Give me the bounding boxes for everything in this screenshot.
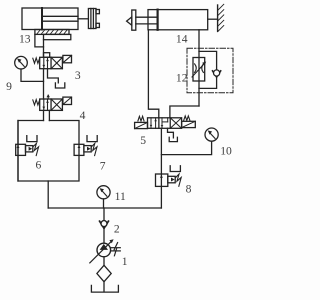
svg-text:14: 14 bbox=[176, 33, 188, 46]
svg-text:6: 6 bbox=[36, 159, 42, 172]
cylinder 14 rod bbox=[136, 16, 158, 18]
right position cross bbox=[170, 118, 181, 129]
tank symbol below valve 5 bbox=[169, 137, 177, 141]
wire cylinder 14 cap-end to valve 5 bbox=[148, 30, 158, 118]
valve 6 (pressure valve) bbox=[16, 121, 39, 182]
pressure gauge 11 bbox=[97, 186, 110, 208]
svg-text:11: 11 bbox=[115, 190, 126, 203]
cylinder 13 piston bbox=[41, 8, 43, 30]
main pressure line bbox=[48, 207, 161, 209]
wire valve 5 to valve 8 and main line bbox=[160, 128, 162, 208]
port block above valve 3 bbox=[44, 53, 50, 58]
tool plate of cylinder 14 bbox=[132, 10, 136, 30]
centre position bbox=[161, 118, 163, 129]
valve 7 (pressure valve) bbox=[74, 136, 97, 156]
bypass check valve of 12 bbox=[199, 51, 221, 88]
left position arrows bbox=[150, 118, 152, 129]
valve 8 (pressure valve) bbox=[156, 166, 182, 187]
drain of valve 3 to tank bbox=[48, 69, 59, 83]
wire cylinder 14 rod-end down through throttle bbox=[198, 30, 200, 106]
check valve 2 bbox=[100, 221, 109, 244]
left spring of valve 5 bbox=[138, 116, 144, 121]
tool tip wedge bbox=[127, 17, 132, 25]
svg-text:8: 8 bbox=[186, 182, 192, 195]
cylinder 13 rod bbox=[42, 15, 78, 17]
drain of valve 5 bbox=[168, 128, 174, 138]
throttle valve 12 bbox=[192, 58, 206, 82]
filter below pump bbox=[97, 257, 111, 292]
solenoid of valve 4 bbox=[63, 97, 72, 104]
cylinder 13 body bbox=[22, 8, 78, 30]
svg-text:13: 13 bbox=[19, 33, 31, 46]
tank symbol main bbox=[91, 285, 118, 292]
pressure gauge 10 bbox=[161, 128, 218, 155]
manifold loop for valves 6 and 7 bbox=[18, 121, 79, 209]
tank symbol below valve 3 bbox=[55, 83, 64, 88]
wire valve 3 to valve 4 bbox=[43, 69, 45, 99]
chuck fixture on rod of cylinder 13 bbox=[88, 9, 99, 29]
svg-text:1: 1 bbox=[122, 255, 128, 268]
wire plate to valve 3 bbox=[43, 40, 45, 58]
cylinder 14 piston bbox=[157, 10, 159, 30]
wires valve 4 to manifold loop bbox=[43, 110, 45, 120]
hatched slide table under cylinder 13 bbox=[35, 30, 69, 35]
svg-text:2: 2 bbox=[114, 222, 120, 235]
valve 5 (4/3 solenoid valve) bbox=[135, 116, 196, 129]
svg-text:4: 4 bbox=[80, 109, 86, 122]
right solenoid of valve 5 bbox=[182, 121, 196, 127]
fixed wall with hatching bbox=[218, 4, 224, 31]
one-way throttle valve 12 enclosure bbox=[187, 48, 233, 93]
svg-text:3: 3 bbox=[75, 69, 81, 82]
svg-text:12: 12 bbox=[176, 72, 188, 85]
spring of valve 3 bbox=[33, 58, 40, 63]
valve 3 (4/2 solenoid valve) bbox=[33, 55, 72, 68]
valve 4 (4/2 solenoid valve) bbox=[33, 94, 72, 110]
wire pump to main line bbox=[103, 208, 105, 221]
svg-text:7: 7 bbox=[100, 159, 106, 172]
rod to wall bbox=[208, 18, 218, 20]
right spring of valve 5 bbox=[184, 116, 190, 121]
svg-text:9: 9 bbox=[6, 80, 12, 93]
cylinder 14 body bbox=[148, 10, 208, 30]
svg-text:10: 10 bbox=[220, 144, 232, 157]
pressure gauge 9 bbox=[15, 56, 44, 81]
svg-text:5: 5 bbox=[140, 134, 146, 147]
spring of valve 4 bbox=[33, 100, 40, 105]
solenoid of valve 3 bbox=[63, 55, 72, 62]
plate under table bbox=[44, 34, 71, 39]
pump 1 (variable displacement) bbox=[90, 239, 121, 263]
left solenoid of valve 5 bbox=[135, 122, 148, 128]
wire cylinder13 cap-end down bbox=[35, 34, 44, 47]
